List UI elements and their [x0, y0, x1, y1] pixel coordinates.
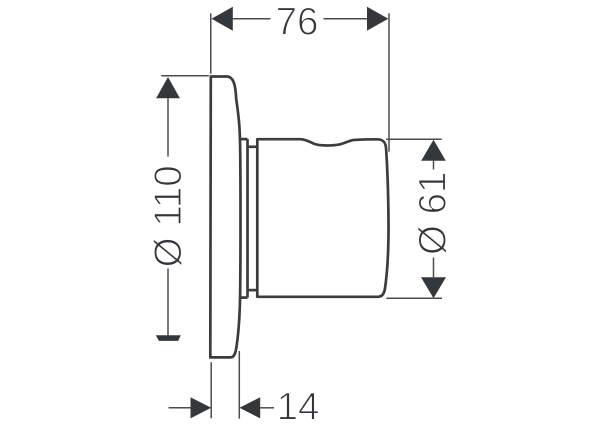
dimension D110: bottom flat arrowhead [156, 335, 181, 341]
dimension 76: right arrowhead [367, 7, 388, 31]
dimension D61: top extension line [386, 138, 442, 140]
dimension D110: line upper segment [167, 98, 169, 156]
svg-text:Ø 110: Ø 110 [147, 165, 190, 267]
ring top edge [240, 138, 248, 141]
neck bottom edge [248, 289, 258, 292]
dimension 76: line left segment [233, 18, 271, 20]
svg-text:Ø 61: Ø 61 [411, 172, 454, 255]
knob (handle) profile [257, 139, 388, 297]
neck top edge [248, 145, 258, 148]
ring bottom edge [240, 296, 247, 299]
dimension D61: line upper segment [433, 161, 435, 170]
dimension 76: left extension line [210, 13, 212, 73]
dimension 76: line right segment [324, 18, 368, 20]
dimension D110: up arrowhead [156, 77, 180, 98]
dimension 14: left extension line [210, 362, 212, 418]
escutcheon plate profile [210, 77, 240, 358]
dimension 14: right tail line [260, 407, 274, 409]
dimension 14: left-pointing arrowhead [240, 397, 261, 418]
svg-text:14: 14 [277, 386, 320, 429]
svg-text:76: 76 [276, 1, 319, 44]
dimension D110: top tick line [161, 75, 209, 77]
dimension 14: left tail line [169, 407, 191, 409]
dimension D61: up arrowhead [421, 140, 446, 161]
dimension 14: right-pointing arrowhead [191, 397, 212, 418]
dimension 76: right extension line [388, 13, 390, 151]
ring edge line B [246, 139, 249, 298]
dimension D61: down arrowhead [421, 277, 446, 298]
dimension 76: left arrowhead [212, 7, 233, 31]
dimension D61: bottom extension line [386, 297, 442, 299]
dimension D61: line lower segment [433, 258, 435, 278]
dimension 14: right extension line [238, 351, 240, 419]
dimension D110: line lower segment [167, 269, 169, 336]
